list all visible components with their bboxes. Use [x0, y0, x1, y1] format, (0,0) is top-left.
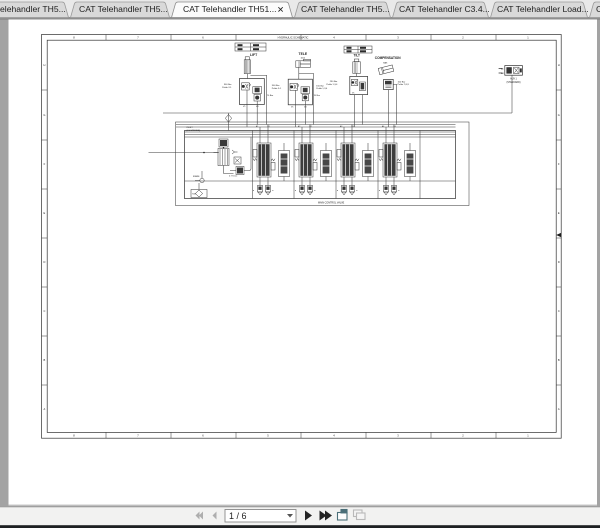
wire lift LS bypass	[250, 75, 266, 124]
tele valve block	[288, 79, 312, 108]
svg-text:Pelde 1,3,4: Pelde 1,3,4	[326, 84, 338, 86]
svg-text:✕: ✕	[277, 4, 284, 14]
nav prev button (disabled)	[213, 512, 217, 520]
valve section 1 port reliefs	[253, 177, 275, 195]
svg-text:CAT Telehandler TH51...: CAT Telehandler TH51...	[183, 4, 276, 14]
tab 4 inactive	[295, 2, 391, 18]
svg-text:MAS: MAS	[383, 61, 388, 64]
svg-text:70 Bar: 70 Bar	[267, 94, 274, 97]
revision marker on right border	[556, 233, 561, 237]
svg-text:(LS STROKE): (LS STROKE)	[187, 130, 201, 132]
svg-text:▲: ▲	[398, 189, 400, 192]
legend table right (tilt circuit)	[344, 46, 372, 53]
valve section 2 compensator	[321, 143, 332, 181]
svg-text:B: B	[558, 358, 560, 362]
compensation valve block	[384, 79, 394, 89]
svg-text:INLET: INLET	[187, 127, 194, 129]
inlet compensator spool	[214, 139, 242, 174]
aux 1 standard block U1	[505, 66, 523, 76]
svg-text:LIFT: LIFT	[250, 53, 258, 57]
tab 3 active with close button	[172, 2, 293, 18]
tab 5 inactive	[393, 2, 489, 18]
svg-text:230 Bar: 230 Bar	[330, 80, 338, 83]
main control valve outer enclosure	[176, 122, 470, 206]
tab bar background	[0, 0, 600, 18]
svg-text:H: H	[43, 63, 45, 67]
svg-text:300 Bar: 300 Bar	[272, 84, 280, 87]
svg-text:A4: A4	[382, 125, 384, 128]
valve section 3 spool	[337, 125, 359, 178]
valve section 4 port reliefs	[379, 177, 401, 195]
node P1	[203, 152, 205, 154]
svg-text:Pelde 2-1: Pelde 2-1	[222, 87, 232, 89]
compensation master cylinder (slave)	[378, 65, 394, 75]
svg-text:A2: A2	[298, 125, 300, 128]
valve section 4 compensator	[405, 143, 416, 181]
svg-text:▲: ▲	[314, 189, 316, 192]
drawing frame inner border	[47, 40, 556, 432]
valve section 2 port reliefs	[295, 177, 317, 195]
inner bottom gallery line	[185, 180, 456, 182]
svg-text:AUX 1: AUX 1	[510, 78, 517, 81]
svg-text:E: E	[558, 211, 560, 215]
tab 7 inactive partial	[590, 2, 600, 18]
svg-text:CAT Telehandler Load...: CAT Telehandler Load...	[497, 4, 589, 14]
svg-text:70 Bar: 70 Bar	[314, 94, 321, 97]
svg-text:D: D	[558, 260, 560, 264]
svg-text:100 Bar: 100 Bar	[398, 80, 406, 83]
svg-text:A: A	[558, 407, 560, 411]
svg-text:C: C	[558, 309, 560, 313]
wire tele A/B drops	[295, 105, 305, 127]
svg-text:elehandler TH5...: elehandler TH5...	[0, 4, 66, 14]
svg-text:A1: A1	[256, 125, 258, 128]
icon new-tab view	[338, 510, 348, 521]
wire tilt drops	[355, 95, 363, 127]
valve section 2 spool	[295, 125, 317, 178]
svg-text:C: C	[43, 309, 45, 313]
svg-text:Pelde 7,8,9: Pelde 7,8,9	[398, 84, 410, 86]
icon duplicate (disabled)	[354, 510, 366, 520]
lift cylinder	[244, 57, 250, 79]
frame zone ticks top	[42, 35, 562, 439]
svg-text:▲: ▲	[337, 189, 339, 192]
svg-text:HYDRAULIC SCHEMATIC: HYDRAULIC SCHEMATIC	[278, 36, 309, 40]
svg-text:(STANDARD): (STANDARD)	[507, 81, 521, 84]
tab 6 inactive	[491, 2, 588, 18]
svg-text:Pelde 1,3,4: Pelde 1,3,4	[316, 88, 328, 90]
valve section 1 spool	[253, 125, 275, 178]
wire main pressure line	[163, 112, 512, 114]
legend table left (lift circuit)	[235, 43, 266, 51]
svg-text:CAT Telehandler C3.4...: CAT Telehandler C3.4...	[399, 4, 490, 14]
svg-text:MAIN CONTROL VALVE: MAIN CONTROL VALVE	[318, 201, 345, 204]
svg-text:▲: ▲	[253, 189, 255, 192]
tele cylinder	[296, 59, 311, 67]
gallery bus lines P T LS	[176, 125, 456, 138]
tank return T1A filter	[191, 183, 207, 198]
lift valve block V1/V3	[240, 79, 265, 109]
tab 1 inactive	[0, 2, 69, 18]
svg-text:150 Bar: 150 Bar	[316, 84, 324, 87]
tilt cylinder	[353, 59, 361, 76]
svg-text:▲: ▲	[295, 189, 297, 192]
wire pump feed P1	[149, 152, 219, 154]
valve section 4 spool	[379, 125, 401, 178]
tilt valve block	[350, 76, 368, 94]
svg-text:▲: ▲	[356, 189, 358, 192]
nav first-page button (disabled)	[199, 512, 203, 520]
nav next button	[305, 511, 312, 521]
svg-text:H: H	[558, 63, 560, 67]
svg-text:A3: A3	[340, 125, 342, 128]
wire aux drop	[511, 75, 513, 113]
svg-text:SPARE: SPARE	[193, 175, 200, 178]
svg-text:300 Bar: 300 Bar	[224, 83, 232, 86]
svg-text:D: D	[43, 260, 45, 264]
bottom toolbar	[0, 507, 600, 526]
valve section 1 compensator	[279, 143, 290, 181]
svg-text:Pelde 3-1: Pelde 3-1	[272, 88, 282, 90]
svg-text:CA: CA	[596, 4, 600, 14]
svg-text:E: E	[44, 211, 46, 215]
svg-text:G: G	[558, 113, 560, 117]
svg-text:1 / 6: 1 / 6	[229, 511, 247, 521]
frame zone numbers	[43, 36, 560, 438]
valve section 3 compensator	[363, 143, 374, 181]
svg-text:A: A	[44, 407, 46, 411]
svg-text:CAT Telehandler TH5...: CAT Telehandler TH5...	[79, 4, 168, 14]
svg-text:CAT Telehandler TH5...: CAT Telehandler TH5...	[301, 4, 390, 14]
inlet pilot valve	[229, 137, 251, 178]
wire compensation drops	[388, 84, 396, 127]
wire lift A/B drops	[247, 105, 257, 128]
svg-text:▲: ▲	[272, 189, 274, 192]
page number combo box	[225, 510, 296, 523]
svg-text:▲: ▲	[379, 189, 381, 192]
svg-text:B: B	[44, 358, 46, 362]
svg-text:0.7 Terex: 0.7 Terex	[229, 176, 237, 178]
svg-text:COMPENSATION: COMPENSATION	[375, 56, 401, 60]
svg-text:G: G	[43, 113, 45, 117]
svg-text:TELE: TELE	[299, 52, 308, 56]
main control valve body U2	[185, 131, 456, 199]
svg-text:TILT: TILT	[354, 54, 361, 58]
inlet orifice check (filter diamond)	[228, 113, 230, 131]
section divider lines	[253, 131, 421, 199]
nav last button	[320, 511, 327, 521]
valve section 3 port reliefs	[337, 177, 359, 195]
drawing frame outer border	[42, 35, 562, 439]
wire tele LS bypass	[299, 67, 314, 124]
tab 2 inactive	[71, 2, 170, 18]
